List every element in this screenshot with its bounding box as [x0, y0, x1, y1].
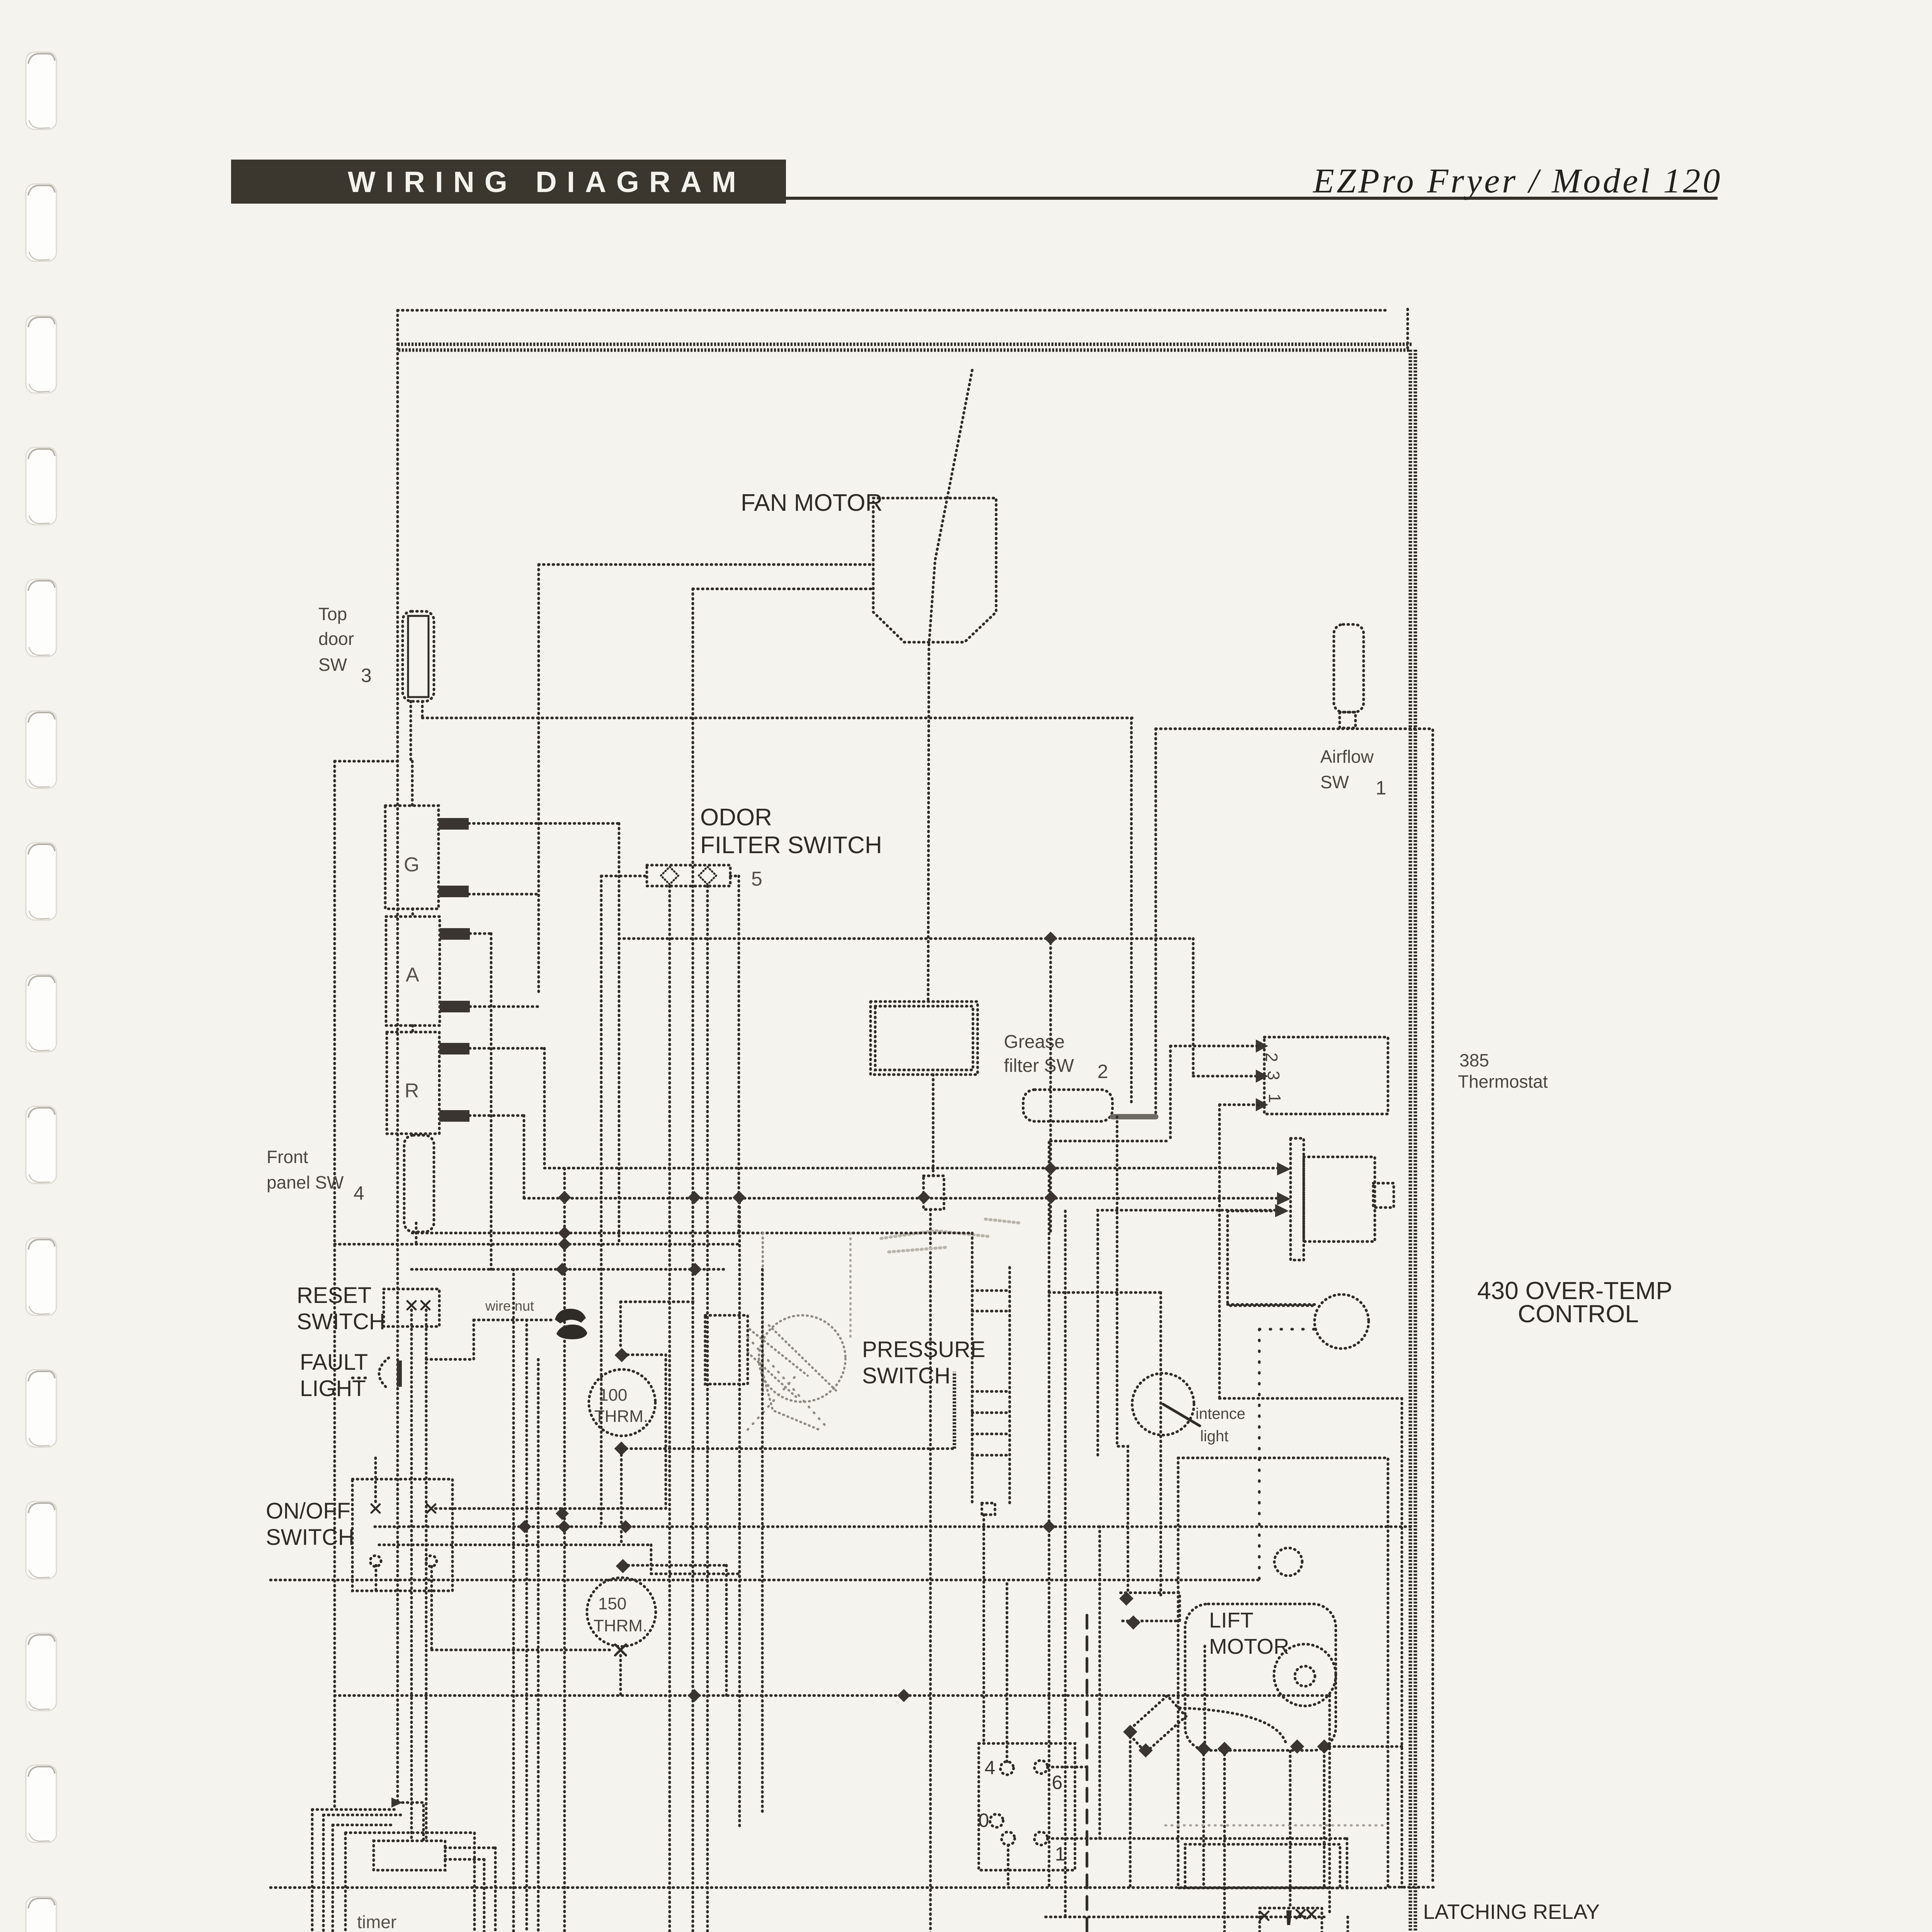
node: junction diamond a: [1119, 1592, 1134, 1606]
wire: dashed long vertical: [1086, 1615, 1088, 1932]
svg-text:FAN MOTOR: FAN MOTOR: [741, 490, 883, 516]
wire: right double rail: [1410, 350, 1415, 1932]
wire: plug riser 3: [1347, 1917, 1349, 1932]
wire: rail below: [379, 1544, 651, 1546]
wire: lift pin2 drop: [1223, 1754, 1226, 1917]
wire: top door switch stub down: [410, 701, 412, 761]
wire: wrap C vertical: [332, 1825, 334, 1932]
wire: rail to over-temp upper: [544, 1167, 1287, 1170]
svg-text:3: 3: [361, 665, 372, 686]
wire: pressure region left edge: [762, 1233, 764, 1391]
node: arc diamond 2: [1317, 1740, 1332, 1754]
svg-text:2: 2: [1262, 1053, 1281, 1062]
svg-text:Grease: Grease: [1004, 1032, 1065, 1052]
node: arrow into pin2: [1256, 1039, 1268, 1053]
ladder tail: [982, 1503, 995, 1515]
wire: pin2 lead: [1170, 1045, 1259, 1048]
wire: third over-temp lead: [1098, 1210, 1285, 1458]
node: junction diamond b: [1126, 1616, 1141, 1630]
odor filter switch SW5: [647, 865, 730, 886]
header black bar: [231, 160, 786, 204]
wire: arc rail right: [1329, 1745, 1402, 1748]
wire: fan motor feed upper: [539, 563, 873, 566]
label intence light: [1196, 1405, 1245, 1445]
svg-text:A: A: [406, 964, 419, 986]
ladder rung 4: [972, 1412, 1010, 1414]
wire: 100 THRM top feed: [619, 1302, 622, 1349]
wire: pressure box top edge: [422, 717, 1133, 719]
svg-text:LATCHING RELAY: LATCHING RELAY: [1423, 1900, 1600, 1923]
terminal bar G1: [439, 818, 469, 830]
svg-text:SW: SW: [1320, 772, 1349, 792]
wire: pressure box right edge: [1130, 718, 1133, 1106]
terminal bar G2: [439, 886, 469, 897]
wire: rail into lift box: [270, 1579, 1259, 1582]
wire: A1 vertical: [490, 934, 493, 1269]
wire: airflow box left edge: [1155, 729, 1157, 1117]
node: reset pin x2: [421, 1301, 430, 1310]
wire: center vertical g: [1064, 1211, 1067, 1917]
wire: 150 top right lead: [628, 1564, 726, 1567]
wire: thermostat drop: [1192, 939, 1195, 1076]
lift motor rotor: [1274, 1644, 1336, 1706]
wire: bottom thermal rail: [432, 1649, 614, 1651]
wire: lift base corner: [1346, 1838, 1349, 1888]
lift assembly outer box: [1178, 1458, 1388, 1888]
fault light lamp: [379, 1358, 389, 1389]
ladder rung 1: [972, 1289, 1010, 1292]
wire: relay pinx drop: [1007, 1845, 1010, 1888]
wire: funnel diagonal a: [748, 1337, 829, 1430]
wire: long rail from fan feed down: [692, 589, 694, 1932]
wire: airflow box top edge: [1156, 728, 1431, 730]
svg-text:FILTER SWITCH: FILTER SWITCH: [700, 832, 882, 859]
wire: over-temp link: [1219, 1397, 1402, 1400]
node: lift pin 2: [1218, 1742, 1232, 1756]
ladder rung 2: [972, 1310, 1010, 1313]
node: plate arrow 1: [1277, 1162, 1291, 1175]
wire: solenoid drop: [1129, 1737, 1132, 1888]
label ODOR FILTER SWITCH: [700, 804, 882, 859]
thermal switch 100 THRM: [589, 1369, 655, 1436]
wire: long rail to thermostat: [619, 937, 1193, 940]
over-temp tab: [1373, 1183, 1394, 1207]
wire: timer head lead 1: [445, 1847, 495, 1849]
wire: wrap A top: [312, 1808, 398, 1811]
terminal bar A2: [440, 1001, 470, 1012]
terminal ladder right rail: [1009, 1267, 1011, 1503]
svg-text:intence: intence: [1196, 1405, 1245, 1422]
lift pilot circle: [1274, 1548, 1302, 1576]
thermostat box: [1264, 1037, 1388, 1114]
latching relay: [1260, 1908, 1322, 1932]
wire: reset pin1 drop: [410, 1310, 413, 1841]
wire: nested rail 1: [512, 1269, 515, 1932]
R lamp box: [387, 1032, 439, 1134]
label Grease filter SW 2: [1004, 1032, 1108, 1082]
label ON/OFF SWITCH: [266, 1498, 354, 1550]
wire: latch feed a: [1289, 1751, 1292, 1908]
wire: center vertical h jog: [1117, 1117, 1128, 1593]
wire: nested rail 4: [563, 1168, 566, 1932]
wire: 150 drop right: [725, 1565, 728, 1696]
fan motor FM1: [873, 498, 996, 642]
small junction box left of lift: [1121, 1593, 1180, 1621]
wire: timer head lead 2: [445, 1858, 484, 1861]
wire: inner box link: [1228, 1303, 1315, 1306]
wire: into thermostat pin 3: [1193, 1075, 1259, 1078]
svg-text:SWITCH: SWITCH: [297, 1309, 385, 1334]
wire: inner box top: [1228, 1210, 1271, 1213]
svg-text:timer: timer: [357, 1912, 396, 1932]
node: fault light tick: [352, 1377, 367, 1379]
wire: relay right riser: [1099, 1527, 1101, 1838]
svg-text:THRM.: THRM.: [594, 1407, 648, 1426]
wire: outer-left long rail: [333, 761, 336, 1810]
node: latch pin x2: [1296, 1910, 1305, 1918]
svg-text:light: light: [1200, 1428, 1228, 1445]
label 2 3 1 pins: [1262, 1053, 1284, 1103]
label RESET SWITCH: [297, 1283, 385, 1334]
wire: wire nut lead: [474, 1319, 555, 1321]
wire: mid rail a: [412, 1268, 726, 1271]
relay block 4-6-0-1: [979, 1743, 1075, 1870]
ladder rung 3: [972, 1390, 1010, 1393]
over-temp sensor plate: [1291, 1138, 1304, 1260]
svg-text:FAULT: FAULT: [300, 1350, 368, 1375]
wire: timer head drop 1: [494, 1848, 497, 1932]
wire: top door stub b: [421, 701, 424, 718]
svg-text:Airflow: Airflow: [1320, 747, 1374, 767]
connector block below grease box: [923, 1176, 944, 1209]
wire: A1 lead: [470, 932, 491, 935]
pressure switch body: [748, 1315, 845, 1430]
svg-text:CONTROL: CONTROL: [1518, 1300, 1639, 1328]
wire: center vertical f: [1048, 1142, 1051, 1888]
wire: nested rail 2: [526, 1320, 528, 1932]
wire: 150 bottom drop: [619, 1655, 622, 1696]
wire: rail 4961: [1046, 1916, 1324, 1918]
wire: dense double band top: [398, 344, 1412, 350]
node: solenoid pin 2: [1139, 1743, 1153, 1758]
svg-text:WIRING DIAGRAM: WIRING DIAGRAM: [348, 166, 746, 199]
svg-text:G: G: [404, 854, 419, 876]
node: lift pin 1: [1197, 1742, 1211, 1756]
svg-text:ON/OFF: ON/OFF: [266, 1498, 350, 1524]
wire: grease switch link solid: [1112, 1114, 1156, 1119]
lift solenoid: [1127, 1696, 1186, 1752]
wire: wrap A vertical: [311, 1810, 314, 1932]
wire: rail A drop: [1328, 1696, 1331, 1914]
wire: center vertical c: [761, 1269, 764, 1815]
wire: dashed riser: [1258, 1329, 1261, 1580]
label FAULT LIGHT: [300, 1350, 368, 1401]
node: plate arrow 2: [1277, 1192, 1291, 1205]
wire: on-off stub up: [374, 1458, 377, 1504]
node: 150 THRM top pin: [616, 1559, 630, 1573]
wire: strip riser b: [1171, 1917, 1225, 1932]
wire: on-off top right lead: [435, 1507, 666, 1510]
wire: R1 drop: [543, 1048, 546, 1168]
svg-text:385: 385: [1459, 1050, 1489, 1070]
terminal ladder left rail: [971, 1233, 974, 1503]
A lamp box: [386, 917, 440, 1026]
wire: rail to over-temp lower: [524, 1197, 1287, 1200]
wire: reset pin2 drop: [425, 1310, 428, 1841]
svg-text:THRM.: THRM.: [594, 1616, 647, 1635]
label Airflow SW 1: [1320, 747, 1386, 799]
wire: inner box left: [1226, 1211, 1229, 1304]
label Front panel SW 4: [267, 1147, 364, 1204]
top door switch SW3: [403, 611, 434, 701]
svg-text:R: R: [405, 1080, 419, 1102]
wire: pin2 drop: [1169, 1046, 1172, 1141]
wire: fan motor feed vertical to A terminal: [537, 565, 540, 995]
svg-text:4: 4: [985, 1757, 995, 1779]
wire: reset button lead: [1230, 1304, 1315, 1307]
wire: wrap B vertical: [322, 1815, 325, 1932]
front panel switch SW4: [404, 1135, 434, 1232]
svg-text:ODOR: ODOR: [700, 804, 772, 831]
svg-text:wire nut: wire nut: [485, 1298, 534, 1314]
node: solenoid pin 1: [1123, 1725, 1138, 1739]
wire: 100 THRM bottom drop: [620, 1455, 623, 1545]
wire: front panel switch stub: [415, 1223, 418, 1244]
on-off switch box: [352, 1479, 452, 1591]
wire: 100 THRM bottom lead: [621, 1447, 954, 1450]
svg-text:150: 150: [598, 1594, 626, 1613]
indicator light lamp: [1132, 1373, 1194, 1435]
wire: ladder drop to relay: [983, 1515, 985, 1743]
wire: top frame left vertical rail: [396, 310, 399, 1803]
label 430 OVER-TEMP CONTROL: [1477, 1277, 1672, 1328]
wire: pin1 drop: [1218, 1105, 1221, 1398]
wire: left branch horizontal: [335, 760, 398, 763]
wire: timer head drop 2: [483, 1859, 486, 1932]
svg-text:LIFT: LIFT: [1209, 1608, 1253, 1632]
svg-text:Top: Top: [318, 604, 347, 624]
label PRESSURE SWITCH: [862, 1337, 985, 1388]
node: G-A link: [412, 909, 414, 917]
wire: solenoid arc: [1180, 1708, 1287, 1746]
wire: G2 lead: [469, 893, 539, 896]
wire: right single rail: [1432, 730, 1434, 1884]
wire: A2 lead: [470, 1005, 539, 1008]
node: on-off pin c1: [370, 1556, 381, 1566]
wire: R1 lead: [469, 1047, 544, 1050]
wire nut blob: [555, 1309, 586, 1323]
wire: latch feed b: [1323, 1751, 1326, 1888]
svg-text:1: 1: [1265, 1094, 1284, 1103]
wire: odor left drop: [600, 876, 603, 1527]
svg-text:MOTOR: MOTOR: [1209, 1634, 1289, 1658]
lift base box: [1185, 1844, 1340, 1888]
wire: right rail bottom jog: [1389, 1886, 1434, 1889]
component block on odor drop: [705, 1315, 748, 1384]
wire: nested rail 3: [537, 1359, 540, 1932]
wire: long rail B: [270, 1886, 1330, 1889]
airflow switch SW1: [1334, 624, 1364, 712]
wire: pressure link riser: [953, 1372, 956, 1449]
G lamp box: [385, 806, 439, 909]
svg-text:LIGHT: LIGHT: [300, 1376, 366, 1401]
svg-text:door: door: [318, 629, 354, 649]
grease filter switch SW2: [1023, 1090, 1112, 1121]
wire: odor pin drop b: [706, 886, 709, 1932]
wire: timer feed loop: [398, 1803, 423, 1841]
terminal bar A1: [440, 928, 470, 940]
wire: top feed rail: [621, 1301, 694, 1303]
node: A-R link: [412, 1026, 414, 1032]
grease filter box: [871, 1002, 978, 1075]
thermal switch 150 THRM: [587, 1578, 656, 1646]
wire: lift base feed: [1048, 1837, 1347, 1840]
wire: long rail A: [335, 1694, 1330, 1697]
terminal bar R2: [439, 1110, 469, 1122]
terminal bar R1: [439, 1043, 469, 1054]
timer head block: [374, 1841, 445, 1870]
svg-text:SWITCH: SWITCH: [862, 1363, 951, 1388]
wire: G1 lead: [469, 822, 619, 825]
wire: front panel rail: [335, 1243, 739, 1246]
svg-text:Thermostat: Thermostat: [1458, 1071, 1548, 1092]
wire: reset button dotted lead: [1259, 1328, 1315, 1331]
svg-text:100: 100: [599, 1386, 627, 1405]
reset switch box: [384, 1289, 439, 1327]
wire: top right corner stub: [1406, 309, 1409, 352]
wire: center vertical long: [738, 1197, 741, 1828]
svg-text:filter SW: filter SW: [1004, 1056, 1074, 1076]
node: latch arm: [1286, 1910, 1292, 1925]
svg-text:Front: Front: [267, 1147, 308, 1167]
svg-text:0: 0: [978, 1810, 989, 1831]
svg-text:PRESSURE: PRESSURE: [862, 1337, 985, 1362]
wire: wrap B top: [323, 1814, 401, 1816]
node: timer feed arrow: [391, 1798, 403, 1808]
wire: on-off bottom right drop: [430, 1566, 433, 1650]
node: 150 THRM bottom pin: [615, 1645, 626, 1655]
wire: pin2 elbow: [1051, 1140, 1170, 1143]
wire: stub to G box: [411, 761, 414, 806]
wire: odor switch right lead: [730, 875, 739, 878]
wire: rail below elbow: [650, 1545, 653, 1574]
wire: relay pin6 lead: [1048, 1766, 1087, 1769]
wire: relay pin4 riser: [1006, 1580, 1009, 1762]
wire: rail 4073: [651, 1573, 740, 1575]
svg-text:RESET: RESET: [297, 1283, 371, 1308]
label LIFT MOTOR: [1209, 1608, 1289, 1658]
wire: center vertical e: [849, 1233, 852, 1341]
timer box: [345, 1833, 474, 1932]
svg-text:panel SW: panel SW: [267, 1172, 344, 1192]
svg-text:2: 2: [1097, 1061, 1108, 1082]
node: arrow into pin3: [1256, 1070, 1268, 1083]
wire: lift pin1 drop: [1202, 1754, 1205, 1888]
wire: odor switch left lead: [601, 875, 647, 878]
wire: indicator feed: [1049, 1291, 1161, 1294]
wire: indicator drop: [1160, 1293, 1162, 1599]
wire: 100 THRM pin link: [628, 1354, 666, 1356]
lift motor box: [1185, 1604, 1336, 1750]
indicator pointer: [1163, 1404, 1200, 1426]
wire: pressure region top edge: [412, 1232, 972, 1235]
over-temp reset button: [1315, 1294, 1369, 1349]
wire: R2 lead: [469, 1114, 524, 1117]
label Top door SW 3: [318, 604, 372, 686]
wire: fan motor feed lower: [693, 588, 873, 590]
over-temp body: [1304, 1157, 1375, 1242]
wire: R2 drop: [523, 1116, 526, 1198]
wire: odor pin drop a: [668, 886, 671, 1932]
node: latch pin x3: [1307, 1910, 1316, 1918]
wire: on-off bottom left drop: [375, 1565, 378, 1590]
svg-text:SWITCH: SWITCH: [266, 1525, 354, 1550]
node: plate arrow 3: [1275, 1204, 1289, 1217]
wire: connector drop long: [929, 1209, 932, 1932]
svg-text:1: 1: [1376, 777, 1386, 799]
node: latch pin x1: [1260, 1912, 1269, 1920]
wire: pin1 lead: [1219, 1104, 1259, 1106]
wire: pin2 long drop: [1049, 938, 1052, 1233]
wire: G1 vertical: [618, 823, 621, 1244]
node: arc diamond 1: [1290, 1740, 1304, 1754]
ladder rung 6: [972, 1454, 1010, 1457]
wire: wire nut elbow: [426, 1320, 474, 1359]
node: arrow into pin1: [1256, 1098, 1268, 1111]
wire: wrap C top: [333, 1824, 394, 1827]
svg-text:6: 6: [1052, 1772, 1063, 1793]
binding holes column: [26, 52, 56, 1932]
lift motor brush bar: [1204, 1646, 1206, 1750]
node: 100 THRM bottom pin: [614, 1442, 629, 1456]
node: on-off pin c2: [426, 1556, 437, 1566]
wire: odor right drop: [738, 876, 740, 1233]
pencil smudge marks: [881, 1219, 1020, 1252]
svg-text:5: 5: [751, 868, 762, 890]
node: 100 THRM top pin: [615, 1348, 629, 1362]
wire: long rail mid page: [375, 1526, 1412, 1528]
wire: slanted fan lead: [928, 370, 972, 1002]
header rule: [786, 197, 1718, 200]
node: reset pin x1: [407, 1301, 416, 1310]
svg-text:4: 4: [354, 1182, 364, 1204]
wire: top frame horizontal: [398, 309, 1386, 312]
wire: drop to on-off: [665, 1355, 667, 1509]
node: junction diamonds: [518, 932, 1058, 1702]
node: on-off pin x2: [427, 1504, 435, 1513]
node: on-off pin x1: [371, 1504, 380, 1513]
wire: over-temp link drop: [1401, 1398, 1403, 1887]
wire: grease box drop: [932, 1075, 935, 1176]
wire: lift faint inner: [1165, 1824, 1383, 1827]
wire: funnel diagonal b: [748, 1376, 796, 1430]
label 385 Thermostat: [1458, 1050, 1548, 1092]
ladder rung 5: [972, 1433, 1010, 1435]
svg-text:EZPro Fryer / Model 120: EZPro Fryer / Model 120: [1312, 162, 1723, 200]
svg-text:SW: SW: [318, 655, 347, 675]
